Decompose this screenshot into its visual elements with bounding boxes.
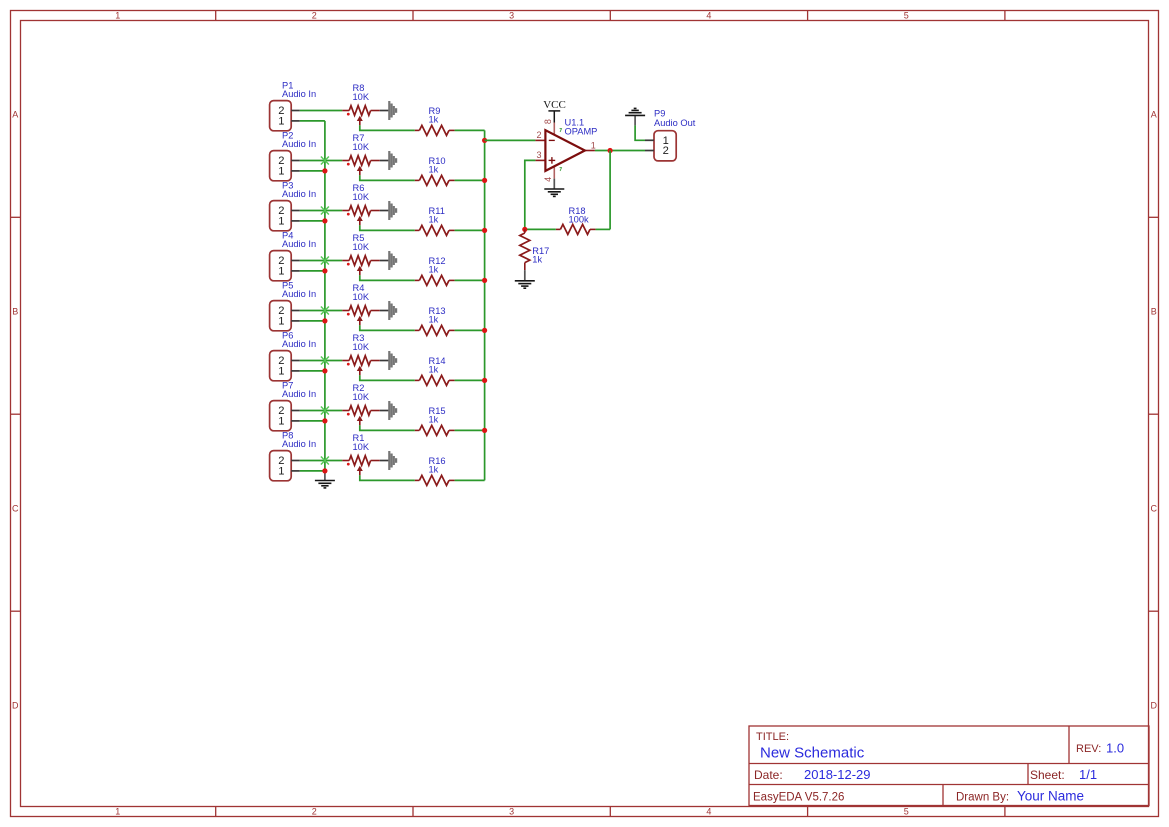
svg-text:1k: 1k (429, 114, 439, 124)
svg-text:1k: 1k (429, 264, 439, 274)
wire P2 pin2 to R7 (300, 160, 343, 162)
junction at ground bus / P7 pin1 (322, 418, 327, 423)
crossing mark at ground bus / P4 pin2 wire (321, 257, 329, 265)
black lead R3 to gray ground (380, 360, 390, 362)
label R8 10K (353, 83, 370, 102)
label R17 1k (532, 246, 549, 265)
svg-text:TITLE:: TITLE: (756, 731, 789, 743)
black lead R6 to gray ground (380, 210, 390, 212)
wire P4 pin1 to ground bus (300, 270, 325, 272)
label R2 10K (353, 383, 370, 402)
svg-text:10K: 10K (353, 92, 370, 102)
wire P7 pin1 to ground bus (300, 420, 325, 422)
wire P4 pin2 to R5 (300, 260, 343, 262)
wire R10 to mixing bus (455, 179, 485, 181)
connector P2 (270, 151, 300, 181)
wire R3 wiper to R14 (360, 375, 415, 380)
ground at P9 pin1 (625, 108, 645, 125)
svg-text:Sheet:: Sheet: (1030, 768, 1065, 782)
potentiometer R8 10K (342, 106, 380, 126)
gray ground at R8 (389, 101, 396, 120)
resistor R15 1k (415, 425, 455, 435)
junction at ground bus / P2 pin1 (322, 168, 327, 173)
label P4 Audio In (282, 231, 316, 250)
connector P7 (270, 401, 300, 431)
junction at mixing bus / op-amp input tap (482, 138, 487, 143)
svg-text:3: 3 (537, 150, 542, 160)
svg-text:1: 1 (115, 11, 120, 21)
svg-text:1: 1 (278, 116, 284, 128)
svg-text:1: 1 (278, 416, 284, 428)
label P1 Audio In (282, 81, 316, 100)
svg-text:2: 2 (312, 11, 317, 21)
label P3 Audio In (282, 181, 316, 200)
wire op-amp output to P9 (595, 150, 645, 152)
label R5 10K (353, 233, 370, 252)
svg-text:B: B (12, 307, 18, 317)
crossing mark at ground bus / P8 pin2 wire (321, 457, 329, 465)
svg-text:10K: 10K (353, 442, 370, 452)
svg-text:Your Name: Your Name (1017, 789, 1084, 804)
pin 1 stub of P5 (291, 320, 300, 322)
wire R16 to mixing bus (455, 479, 485, 481)
gray ground at R1 (389, 451, 396, 470)
svg-text:1: 1 (278, 266, 284, 278)
unconnected pin mark bottom (560, 168, 562, 171)
label P2 Audio In (282, 131, 316, 150)
label R1 10K (353, 433, 370, 452)
label P6 Audio In (282, 331, 316, 350)
svg-text:5: 5 (904, 11, 909, 21)
label R13 1k (429, 306, 446, 325)
resistor R16 1k (415, 475, 455, 485)
connector P3 (270, 201, 300, 231)
svg-text:D: D (12, 701, 19, 711)
label R18 100k (569, 206, 590, 225)
wire R18 to output (596, 228, 611, 230)
svg-text:10K: 10K (353, 392, 370, 402)
pin 2 stub of P6 (291, 360, 300, 362)
gray ground at R2 (389, 401, 396, 420)
ground at op-amp pin 4 (544, 179, 564, 197)
pin 1 stub of P2 (291, 170, 300, 172)
svg-text:1/1: 1/1 (1079, 767, 1097, 782)
crossing mark at ground bus / P5 pin2 wire (321, 307, 329, 315)
ground at input bus (315, 481, 335, 488)
wire P8 pin2 to R1 (300, 460, 343, 462)
svg-text:1: 1 (115, 807, 120, 817)
junction at mixing bus / R13 (482, 328, 487, 333)
svg-text:Date:: Date: (754, 768, 783, 782)
label P5 Audio In (282, 281, 316, 300)
potentiometer R1 10K (342, 456, 380, 476)
svg-text:1: 1 (278, 216, 284, 228)
wire mixing bus to op-amp pin 2 (485, 139, 536, 141)
wire R8 wiper to R9 (360, 125, 415, 130)
connector P4 (270, 251, 300, 281)
wire P3 pin1 to ground bus (300, 220, 325, 222)
pin 2 stub of P7 (291, 410, 300, 412)
svg-text:1k: 1k (429, 164, 439, 174)
label P9 Audio Out (654, 109, 696, 129)
wire P9 pin1 to ground (635, 125, 645, 140)
op-amp U1.1 OPAMP (535, 123, 595, 179)
svg-text:2018-12-29: 2018-12-29 (804, 767, 871, 782)
svg-text:1k: 1k (429, 214, 439, 224)
potentiometer R5 10K (342, 256, 380, 276)
svg-text:P9: P9 (654, 109, 665, 119)
svg-text:C: C (1150, 504, 1157, 514)
svg-text:1.0: 1.0 (1106, 741, 1124, 756)
wire R15 to mixing bus (455, 429, 485, 431)
connector P6 (270, 351, 300, 381)
junction at ground bus / P6 pin1 (322, 368, 327, 373)
svg-text:100k: 100k (569, 214, 590, 224)
pin 1 stub of P8 (291, 470, 300, 472)
crossing mark at ground bus / P7 pin2 wire (321, 407, 329, 415)
wire R1 wiper to R16 (360, 475, 415, 480)
pin 1 stub of P3 (291, 220, 300, 222)
resistor R11 1k (415, 225, 455, 235)
svg-text:8: 8 (543, 119, 553, 124)
mixing bus wire (484, 130, 486, 480)
svg-text:Audio In: Audio In (282, 439, 316, 449)
svg-text:3: 3 (509, 807, 514, 817)
junction at mixing bus / R10 (482, 178, 487, 183)
svg-text:Audio In: Audio In (282, 289, 316, 299)
connector P8 (270, 451, 300, 481)
svg-text:2: 2 (663, 145, 669, 157)
label P8 Audio In (282, 431, 316, 450)
junction at ground bus / P4 pin1 (322, 268, 327, 273)
black lead R1 to gray ground (380, 460, 390, 462)
connector P1 (270, 101, 300, 131)
feedback wire output down to R18 (609, 151, 611, 230)
pin 1 stub of P9 (645, 139, 654, 141)
potentiometer R2 10K (342, 406, 380, 426)
resistor R9 1k (415, 125, 455, 135)
resistor R13 1k (415, 325, 455, 335)
svg-text:New Schematic: New Schematic (760, 745, 865, 762)
wire R5 wiper to R12 (360, 275, 415, 280)
svg-text:1: 1 (278, 466, 284, 478)
gray ground at R7 (389, 151, 396, 170)
connector P5 (270, 301, 300, 331)
wire R2 wiper to R15 (360, 425, 415, 430)
pin 2 stub of P9 (645, 150, 654, 152)
black lead R2 to gray ground (380, 410, 390, 412)
svg-text:A: A (1151, 110, 1157, 120)
resistor R14 1k (415, 375, 455, 385)
crossing mark at ground bus / P2 pin2 wire (321, 157, 329, 165)
svg-text:1k: 1k (429, 314, 439, 324)
wire R7 wiper to R10 (360, 175, 415, 180)
svg-text:OPAMP: OPAMP (565, 126, 598, 136)
gray ground at R6 (389, 201, 396, 220)
svg-text:REV:: REV: (1076, 743, 1101, 755)
svg-text:1: 1 (278, 366, 284, 378)
potentiometer R3 10K (342, 356, 380, 376)
svg-text:1k: 1k (429, 364, 439, 374)
pin 2 stub of P3 (291, 210, 300, 212)
pin 2 stub of P4 (291, 260, 300, 262)
svg-text:Audio In: Audio In (282, 139, 316, 149)
svg-text:Audio Out: Audio Out (654, 118, 696, 128)
svg-text:Audio In: Audio In (282, 239, 316, 249)
resistor R10 1k (415, 175, 455, 185)
junction at R17/R18/pin3 node (522, 227, 527, 232)
black lead R4 to gray ground (380, 310, 390, 312)
wire P2 pin1 to ground bus (300, 170, 325, 172)
wire R17 node up to op-amp pin 3 (525, 160, 536, 229)
gray ground at R5 (389, 251, 396, 270)
svg-text:1: 1 (278, 166, 284, 178)
svg-text:Audio In: Audio In (282, 189, 316, 199)
gray ground at R4 (389, 301, 396, 320)
potentiometer R6 10K (342, 206, 380, 226)
label R3 10K (353, 333, 370, 352)
label R11 1k (429, 206, 445, 225)
unconnected pin mark top (560, 129, 562, 132)
svg-text:4: 4 (706, 807, 711, 817)
label R15 1k (429, 406, 446, 425)
junction at mixing bus / R15 (482, 428, 487, 433)
black lead R8 to gray ground (380, 110, 390, 112)
pin 1 stub of P1 (291, 120, 300, 122)
svg-text:2: 2 (537, 130, 542, 140)
junction at ground bus / P8 pin1 (322, 468, 327, 473)
svg-text:Drawn By:: Drawn By: (956, 792, 1009, 804)
label P7 Audio In (282, 381, 316, 400)
power flag VCC (543, 99, 566, 122)
svg-text:1: 1 (278, 316, 284, 328)
svg-text:10K: 10K (353, 242, 370, 252)
ground bus wire (P1..P8 pin1) (324, 121, 326, 471)
wire R11 to mixing bus (455, 229, 485, 231)
label R9 1k (429, 106, 441, 125)
pin 1 stub of P7 (291, 420, 300, 422)
junction at ground bus / P3 pin1 (322, 218, 327, 223)
wire R12 to mixing bus (455, 279, 485, 281)
crossing mark at ground bus / P6 pin2 wire (321, 357, 329, 365)
svg-text:EasyEDA V5.7.26: EasyEDA V5.7.26 (753, 792, 844, 804)
resistor R17 1k (520, 229, 530, 270)
pin 1 stub of P4 (291, 270, 300, 272)
ground at R17 (515, 270, 535, 288)
svg-text:C: C (12, 504, 19, 514)
pin 2 stub of P2 (291, 160, 300, 162)
junction at mixing bus / R12 (482, 278, 487, 283)
junction at op-amp output (608, 148, 613, 153)
wire P8 pin1 to ground bus (300, 470, 325, 472)
label R16 1k (429, 456, 446, 475)
wire P1 pin2 to R8 (300, 110, 343, 112)
wire P5 pin1 to ground bus (300, 320, 325, 322)
potentiometer R4 10K (342, 306, 380, 326)
svg-text:10K: 10K (353, 192, 370, 202)
junction at ground bus / P5 pin1 (322, 318, 327, 323)
junction at mixing bus / R14 (482, 378, 487, 383)
label U1.1 OPAMP (565, 117, 598, 136)
potentiometer R7 10K (342, 156, 380, 176)
label R12 1k (429, 256, 446, 275)
svg-text:Audio In: Audio In (282, 89, 316, 99)
svg-text:1k: 1k (532, 255, 542, 265)
connector P9 (645, 131, 676, 161)
resistor R12 1k (415, 275, 455, 285)
ground bus stem (324, 471, 326, 481)
pin 1 stub of P6 (291, 370, 300, 372)
label R14 1k (429, 356, 446, 375)
svg-text:B: B (1151, 307, 1157, 317)
wire R13 to mixing bus (455, 329, 485, 331)
svg-text:1: 1 (591, 140, 596, 150)
svg-text:1k: 1k (429, 464, 439, 474)
resistor R18 100k (556, 224, 596, 234)
svg-text:Audio In: Audio In (282, 389, 316, 399)
label R4 10K (353, 283, 370, 302)
wire P1 pin1 to ground bus (300, 120, 325, 122)
svg-text:VCC: VCC (543, 99, 566, 111)
black lead R5 to gray ground (380, 260, 390, 262)
svg-text:2: 2 (312, 807, 317, 817)
wire R4 wiper to R13 (360, 325, 415, 330)
pin 2 stub of P1 (291, 110, 300, 112)
label R6 10K (353, 183, 370, 202)
svg-text:5: 5 (904, 807, 909, 817)
crossing mark at ground bus / P3 pin2 wire (321, 207, 329, 215)
pin 2 stub of P8 (291, 460, 300, 462)
label R7 10K (353, 133, 370, 152)
svg-text:4: 4 (543, 177, 553, 182)
svg-text:10K: 10K (353, 292, 370, 302)
wire R9 to mixing bus (455, 129, 485, 131)
svg-text:4: 4 (706, 11, 711, 21)
svg-text:1k: 1k (429, 414, 439, 424)
svg-text:A: A (12, 110, 18, 120)
wire P7 pin2 to R2 (300, 410, 343, 412)
wire P3 pin2 to R6 (300, 210, 343, 212)
black lead R7 to gray ground (380, 160, 390, 162)
wire P6 pin2 to R3 (300, 360, 343, 362)
wire R14 to mixing bus (455, 379, 485, 381)
junction at mixing bus / R11 (482, 228, 487, 233)
wire R18 to R17 node (525, 228, 556, 230)
svg-text:Audio In: Audio In (282, 339, 316, 349)
wire R6 wiper to R11 (360, 225, 415, 230)
svg-text:10K: 10K (353, 342, 370, 352)
pin 2 stub of P5 (291, 310, 300, 312)
svg-text:3: 3 (509, 11, 514, 21)
svg-text:10K: 10K (353, 142, 370, 152)
wire P5 pin2 to R4 (300, 310, 343, 312)
gray ground at R3 (389, 351, 396, 370)
svg-text:D: D (1150, 701, 1157, 711)
label R10 1k (429, 156, 446, 175)
wire P6 pin1 to ground bus (300, 370, 325, 372)
